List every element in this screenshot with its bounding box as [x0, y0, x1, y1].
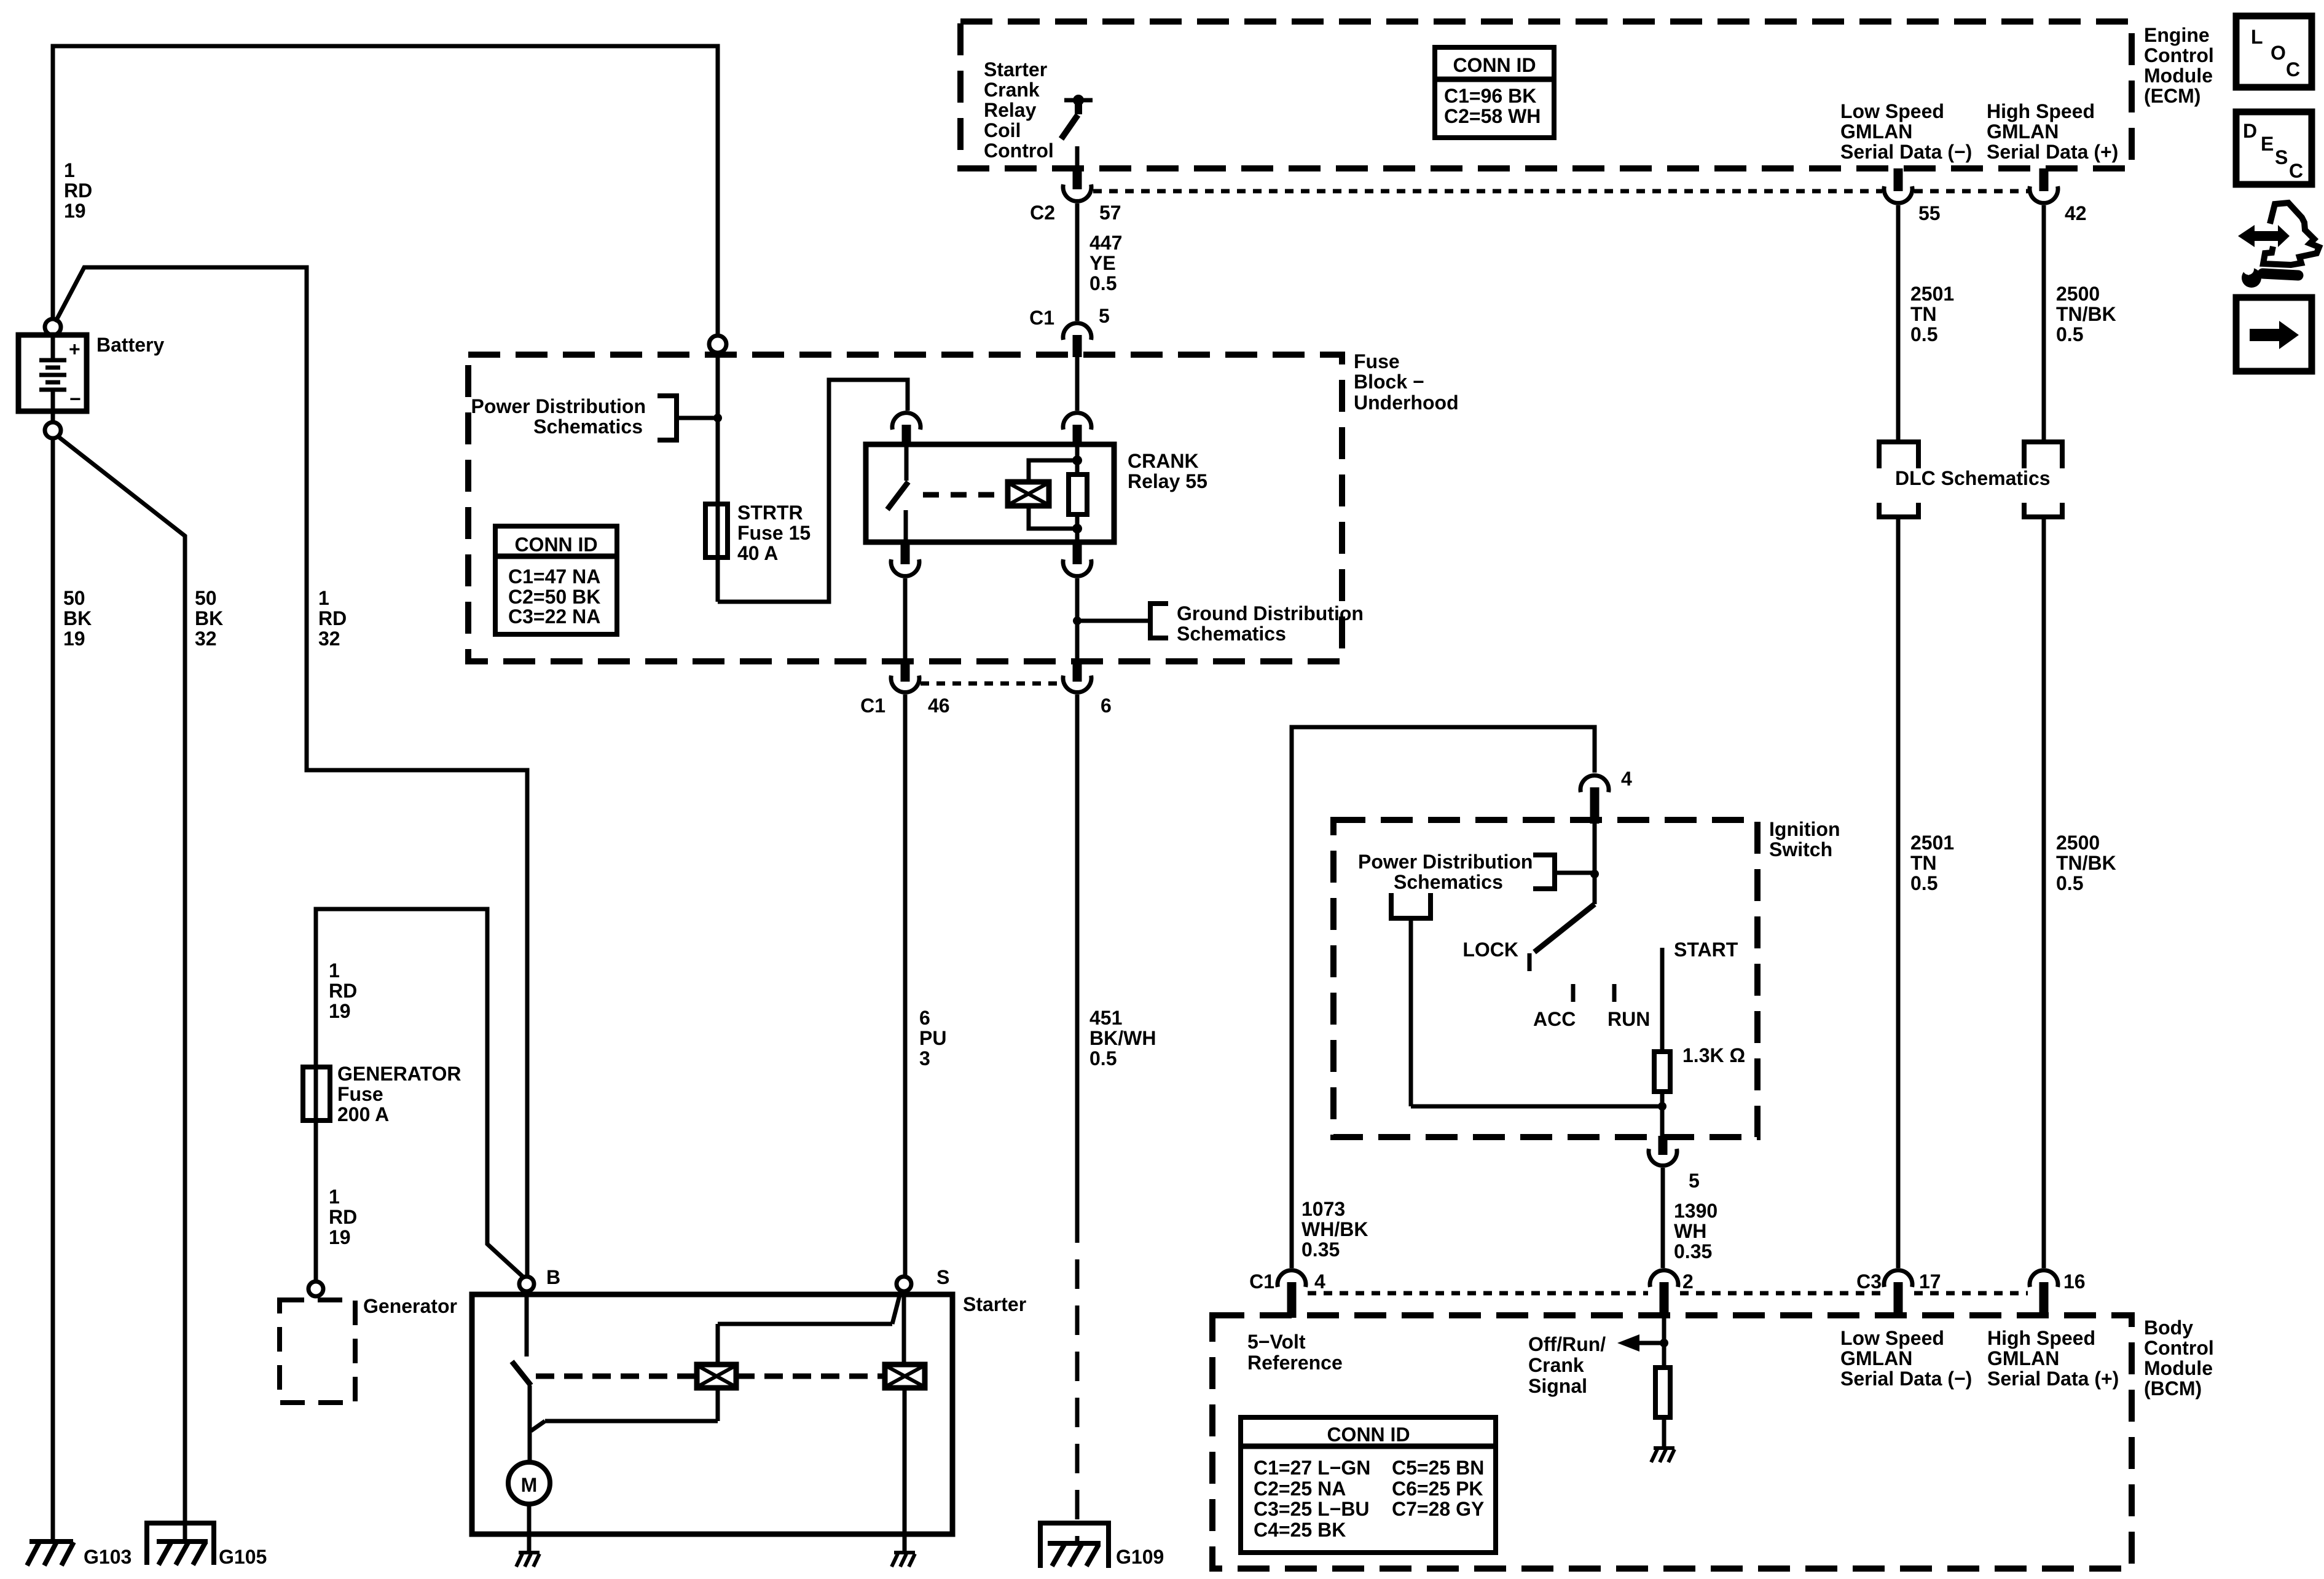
starter box: [472, 1294, 952, 1534]
svg-text:BK: BK: [63, 607, 92, 629]
svg-text:42: 42: [2065, 202, 2087, 224]
svg-text:BK/WH: BK/WH: [1089, 1027, 1156, 1049]
svg-text:Block −: Block −: [1354, 371, 1424, 393]
svg-text:46: 46: [928, 695, 950, 717]
wire BCM crank signal: [1662, 1318, 1666, 1368]
svg-text:YE: YE: [1089, 252, 1116, 274]
svg-text:B: B: [546, 1266, 560, 1288]
wire 2501 TN upper: [1896, 205, 1901, 442]
wire resistor to junction: [1660, 1092, 1665, 1136]
icon DESC box: [2236, 112, 2312, 184]
relay CRANK 55 box: [866, 444, 1114, 542]
svg-text:GMLAN: GMLAN: [1840, 1347, 1912, 1369]
wire S terminal to pull-in coil and ground: [904, 1291, 905, 1553]
relay resistor: [1069, 474, 1087, 514]
svg-text:Fuse: Fuse: [1354, 350, 1400, 372]
svg-text:Ignition: Ignition: [1769, 818, 1840, 840]
svg-text:Underhood: Underhood: [1354, 392, 1459, 414]
svg-text:Crank: Crank: [1528, 1354, 1584, 1376]
starter solenoid ground: [892, 1553, 915, 1567]
generator terminal circle: [308, 1282, 323, 1296]
svg-text:Low Speed: Low Speed: [1840, 1327, 1944, 1349]
dotted connector line below ECM: [1093, 189, 2028, 194]
starter crank relay coil control switch: [1064, 98, 1093, 103]
svg-text:5: 5: [1099, 305, 1110, 327]
svg-text:2: 2: [1682, 1270, 1694, 1293]
wire ignition feed inside: [1593, 824, 1597, 904]
svg-text:START: START: [1674, 939, 1738, 961]
starter B terminal: [519, 1277, 534, 1291]
connector 5 at ignition bottom: [1659, 1136, 1668, 1155]
starter contact branch: [531, 1421, 718, 1431]
starter S terminal: [897, 1277, 911, 1291]
connector cup relay switch bottom pin: [901, 542, 910, 564]
svg-text:TN: TN: [1910, 303, 1937, 325]
svg-text:RD: RD: [329, 980, 357, 1002]
starter motor ground: [516, 1553, 540, 1567]
svg-text:C2=58 WH: C2=58 WH: [1444, 105, 1541, 127]
wire 2501 TN lower: [1896, 517, 1901, 1268]
icon vehicle outline: [2263, 203, 2319, 265]
svg-text:5−Volt: 5−Volt: [1247, 1331, 1306, 1353]
svg-text:50: 50: [63, 587, 85, 609]
START contact wire: [1660, 948, 1665, 1052]
relay coil X-box: [1008, 482, 1049, 506]
svg-text:0.35: 0.35: [1674, 1240, 1712, 1262]
svg-text:C3=25 L−BU: C3=25 L−BU: [1254, 1498, 1370, 1520]
svg-text:1: 1: [329, 1186, 340, 1208]
svg-text:Serial Data (+): Serial Data (+): [1987, 141, 2118, 163]
wire 451 BK/WH solid part: [1075, 695, 1080, 1243]
svg-text:40 A: 40 A: [737, 542, 778, 564]
svg-text:1390: 1390: [1674, 1200, 1717, 1222]
svg-text:GMLAN: GMLAN: [1987, 1347, 2059, 1369]
svg-text:M: M: [521, 1474, 538, 1496]
ignition switch feed wire loop: [1292, 727, 1595, 1268]
svg-text:Crank: Crank: [984, 79, 1040, 101]
relay coil branch wires: [1029, 460, 1077, 529]
BCM internal resistor: [1655, 1368, 1670, 1417]
starter hold-in coil X-box: [697, 1364, 736, 1388]
svg-text:Schematics: Schematics: [533, 415, 643, 438]
svg-text:32: 32: [318, 628, 340, 650]
svg-text:WH/BK: WH/BK: [1301, 1218, 1368, 1240]
battery B1: [18, 335, 87, 411]
wire battery positive to fuse block (1 RD 19): [53, 46, 718, 336]
svg-text:19: 19: [63, 628, 85, 650]
wires hold-in coil: [718, 1291, 901, 1421]
svg-text:4: 4: [1621, 768, 1632, 790]
battery positive terminal: [45, 319, 61, 335]
svg-text:D: D: [2243, 120, 2257, 142]
svg-text:C: C: [2289, 160, 2303, 182]
svg-text:RD: RD: [329, 1206, 357, 1228]
svg-text:Serial Data (−): Serial Data (−): [1840, 1368, 1972, 1390]
svg-text:Control: Control: [2144, 1337, 2214, 1359]
svg-text:CONN ID: CONN ID: [1453, 54, 1536, 76]
svg-text:Signal: Signal: [1528, 1375, 1587, 1397]
svg-text:PU: PU: [919, 1027, 946, 1049]
svg-text:TN/BK: TN/BK: [2056, 852, 2116, 874]
svg-text:C3: C3: [1856, 1270, 1882, 1293]
svg-text:L: L: [2251, 26, 2263, 48]
junction dot ground distribution: [1073, 616, 1082, 625]
svg-text:C2: C2: [1030, 202, 1055, 224]
wire 1 RD 32 battery to starter B: [55, 267, 527, 1277]
BCM internal ground: [1651, 1448, 1674, 1462]
fuse STRTR 15 40A: [705, 504, 728, 557]
svg-text:55: 55: [1918, 202, 1941, 224]
junction dot ignition output: [1658, 1102, 1666, 1111]
svg-text:CONN ID: CONN ID: [514, 534, 597, 556]
svg-text:GMLAN: GMLAN: [1987, 120, 2059, 143]
svg-text:19: 19: [64, 200, 86, 222]
junction circle at fuse block boundary: [709, 336, 726, 353]
svg-text:C1=96 BK: C1=96 BK: [1444, 85, 1536, 107]
off/run/crank signal arrow: [1617, 1334, 1639, 1352]
svg-text:G105: G105: [219, 1546, 267, 1568]
svg-text:200 A: 200 A: [337, 1103, 389, 1125]
svg-text:C5=25 BN: C5=25 BN: [1392, 1457, 1484, 1479]
generator dashed box: [280, 1300, 355, 1403]
svg-text:0.5: 0.5: [1089, 1047, 1117, 1069]
svg-text:Control: Control: [2144, 44, 2214, 66]
svg-text:Power Distribution: Power Distribution: [1358, 851, 1533, 873]
svg-text:17: 17: [1919, 1270, 1941, 1293]
svg-text:4: 4: [1314, 1270, 1325, 1293]
wire into fuse block: [716, 353, 720, 602]
ground G103: [27, 1542, 74, 1565]
svg-text:CONN ID: CONN ID: [1327, 1423, 1410, 1446]
svg-text:C1: C1: [1029, 307, 1054, 329]
svg-text:C2=50 BK: C2=50 BK: [508, 586, 600, 608]
relay mech link dashed: [923, 492, 1005, 498]
svg-text:Fuse: Fuse: [337, 1083, 383, 1105]
starter solenoid switch: [525, 1291, 529, 1357]
icon wrench: [2263, 274, 2298, 275]
svg-text:0.5: 0.5: [2056, 323, 2083, 345]
svg-text:WH: WH: [1674, 1220, 1706, 1242]
svg-text:6: 6: [919, 1007, 930, 1029]
icon LOC box: [2236, 16, 2312, 87]
svg-text:CRANK: CRANK: [1128, 450, 1199, 472]
svg-text:2500: 2500: [2056, 832, 2100, 854]
ground G105: [147, 1523, 214, 1565]
relay switch: [905, 447, 909, 481]
svg-text:Low Speed: Low Speed: [1840, 100, 1944, 122]
svg-text:Serial Data (+): Serial Data (+): [1987, 1368, 2119, 1390]
svg-text:GMLAN: GMLAN: [1840, 120, 1912, 143]
svg-text:Serial Data (−): Serial Data (−): [1840, 141, 1972, 163]
wire 2500 TN/BK upper: [2042, 205, 2046, 442]
svg-text:3: 3: [919, 1047, 930, 1069]
starter motor M: [508, 1462, 550, 1504]
svg-text:RD: RD: [64, 179, 92, 202]
svg-text:Engine: Engine: [2144, 24, 2210, 46]
svg-text:C7=28 GY: C7=28 GY: [1392, 1498, 1484, 1520]
svg-text:5: 5: [1689, 1170, 1700, 1192]
fuse block underhood dashed box: [468, 355, 1342, 661]
svg-text:Coil: Coil: [984, 119, 1021, 141]
svg-text:C4=25 BK: C4=25 BK: [1254, 1519, 1346, 1541]
wire generator to 1 RD 32 junction loop: [316, 909, 524, 1282]
svg-text:19: 19: [329, 1000, 351, 1022]
fuse block CONN ID table: [495, 526, 617, 634]
connector cup relay coil bottom pin: [1073, 542, 1082, 564]
wire 50 BK 19 battery to G103: [51, 438, 55, 1540]
wire 50 BK 32 battery to G105: [57, 436, 185, 1542]
connector 16 at BCM: [2030, 1270, 2058, 1287]
svg-text:Relay: Relay: [984, 99, 1037, 121]
svg-text:(BCM): (BCM): [2144, 1377, 2202, 1400]
svg-text:2501: 2501: [1910, 832, 1954, 854]
wire 1390 WH 0.35: [1661, 1168, 1665, 1268]
starter pull-in coil X-box: [885, 1364, 925, 1388]
connector dome relay switch pin: [892, 413, 921, 430]
svg-text:1073: 1073: [1301, 1198, 1345, 1220]
connector pin 55 at ECM: [1894, 168, 1903, 191]
resistor 1.3K: [1654, 1052, 1670, 1092]
svg-text:E: E: [2261, 133, 2274, 155]
dotted connector line at BCM: [1308, 1291, 2028, 1296]
svg-text:Starter: Starter: [963, 1293, 1026, 1315]
svg-text:0.5: 0.5: [1910, 872, 1937, 894]
svg-text:RUN: RUN: [1608, 1008, 1650, 1030]
svg-text:RD: RD: [318, 607, 347, 629]
ACC position tick: [1571, 984, 1576, 1002]
svg-text:16: 16: [2063, 1270, 2086, 1293]
icon double arrow: [2238, 225, 2290, 247]
svg-text:Power Distribution: Power Distribution: [471, 395, 646, 417]
wire 451 BK/WH dashed part to G109: [1075, 1259, 1080, 1543]
connector dome relay coil pin: [1063, 413, 1091, 430]
ignition switch dashed box: [1333, 820, 1757, 1137]
svg-text:Control: Control: [984, 140, 1054, 162]
wire horizontal ignition output: [1411, 1105, 1662, 1109]
svg-text:S: S: [2275, 146, 2288, 168]
svg-text:19: 19: [329, 1226, 351, 1248]
dotted connector line fuse block bottom: [921, 682, 1062, 686]
svg-text:0.5: 0.5: [1910, 323, 1937, 345]
svg-text:1.3K Ω: 1.3K Ω: [1682, 1044, 1745, 1066]
connector 4 at ignition switch: [1580, 776, 1609, 792]
ECM CONN ID table: [1435, 47, 1554, 138]
svg-text:High Speed: High Speed: [1987, 1327, 2095, 1349]
wire 2500 TN/BK lower: [2042, 517, 2046, 1268]
svg-text:50: 50: [195, 587, 217, 609]
svg-text:TN/BK: TN/BK: [2056, 303, 2116, 325]
svg-text:Generator: Generator: [363, 1295, 457, 1317]
battery negative terminal: [45, 422, 61, 438]
junction dots relay coil: [1072, 455, 1082, 465]
svg-text:Module: Module: [2144, 1357, 2213, 1379]
svg-text:−: −: [69, 388, 81, 410]
svg-text:High Speed: High Speed: [1987, 100, 2095, 122]
connector C2 57 at ECM: [1073, 168, 1082, 189]
BCM dashed box: [1212, 1315, 2132, 1569]
svg-text:447: 447: [1089, 232, 1122, 254]
icon arrow box: [2236, 297, 2312, 371]
svg-text:TN: TN: [1910, 852, 1937, 874]
svg-text:C6=25 PK: C6=25 PK: [1392, 1478, 1483, 1500]
fuse GENERATOR 200A: [303, 1067, 330, 1120]
svg-text:0.5: 0.5: [2056, 872, 2083, 894]
svg-text:1: 1: [64, 159, 75, 181]
svg-text:C1: C1: [1249, 1270, 1274, 1293]
connector C1 4 at BCM: [1278, 1270, 1306, 1287]
ground distribution bracket: [1077, 619, 1149, 623]
svg-text:DLC Schematics: DLC Schematics: [1895, 467, 2051, 489]
connector pin 42 at ECM: [2039, 168, 2049, 191]
ECM dashed box: [960, 22, 2132, 168]
svg-text:C1=27 L−GN: C1=27 L−GN: [1254, 1457, 1370, 1479]
junction dot ignition power distribution: [1590, 870, 1599, 878]
DLC schematics bracket right: [2024, 442, 2062, 517]
svg-text:Schematics: Schematics: [1394, 871, 1503, 893]
connector C3 17 at BCM: [1884, 1270, 1912, 1287]
svg-text:0.35: 0.35: [1301, 1238, 1340, 1261]
svg-text:Ground Distribution: Ground Distribution: [1177, 602, 1364, 624]
svg-text:STRTR: STRTR: [737, 502, 803, 524]
connector C1 46 at fuse block bottom: [901, 663, 910, 682]
svg-text:+: +: [69, 338, 80, 360]
svg-text:Module: Module: [2144, 65, 2213, 87]
svg-text:C1=47 NA: C1=47 NA: [508, 565, 600, 588]
svg-text:6: 6: [1101, 695, 1112, 717]
svg-text:1: 1: [318, 587, 329, 609]
relay main wire through resistor: [1075, 447, 1080, 542]
wire 447 YE 0.5: [1075, 203, 1080, 321]
svg-text:ACC: ACC: [1533, 1008, 1576, 1030]
svg-text:2501: 2501: [1910, 283, 1954, 305]
DLC schematics bracket left: [1879, 442, 1918, 517]
wire from power distribution down: [1409, 918, 1413, 1106]
svg-text:S: S: [936, 1266, 949, 1288]
svg-text:C2=25 NA: C2=25 NA: [1254, 1478, 1346, 1500]
svg-text:Relay 55: Relay 55: [1128, 470, 1207, 492]
svg-text:Body: Body: [2144, 1317, 2193, 1339]
connector 2 at BCM: [1650, 1270, 1678, 1287]
svg-text:O: O: [2271, 42, 2286, 64]
svg-text:Starter: Starter: [984, 58, 1047, 81]
svg-text:LOCK: LOCK: [1462, 939, 1518, 961]
ignition switch blade LOCK: [1534, 904, 1595, 952]
power distribution schematics bracket: [658, 396, 677, 440]
svg-text:Fuse 15: Fuse 15: [737, 522, 811, 544]
wire to BCM internal ground: [1662, 1417, 1666, 1448]
svg-text:Battery: Battery: [96, 334, 164, 356]
svg-text:32: 32: [195, 628, 217, 650]
wire motor to ground: [527, 1504, 532, 1553]
svg-text:451: 451: [1089, 1007, 1122, 1029]
svg-text:(ECM): (ECM): [2144, 85, 2200, 107]
svg-text:BK: BK: [195, 607, 223, 629]
svg-text:57: 57: [1099, 202, 1121, 224]
starter mech link dashed: [536, 1374, 885, 1379]
svg-text:Reference: Reference: [1247, 1352, 1343, 1374]
RUN position tick: [1612, 984, 1617, 1002]
BCM CONN ID table: [1241, 1417, 1496, 1553]
svg-text:1: 1: [329, 959, 340, 982]
svg-text:0.5: 0.5: [1089, 272, 1117, 294]
svg-text:Switch: Switch: [1769, 838, 1832, 860]
connector C1 5 at fuse block top: [1063, 323, 1091, 340]
connector 6 at fuse block bottom: [1073, 663, 1082, 682]
power distribution bracket right (ignition): [1533, 855, 1555, 889]
svg-text:G109: G109: [1116, 1546, 1164, 1568]
svg-text:G103: G103: [84, 1546, 132, 1568]
power distribution bracket bottom (ignition): [1391, 893, 1431, 918]
svg-text:C1: C1: [860, 695, 885, 717]
ground G109: [1040, 1523, 1109, 1568]
svg-text:Off/Run/: Off/Run/: [1528, 1333, 1606, 1355]
svg-text:Schematics: Schematics: [1177, 623, 1286, 645]
svg-text:C3=22 NA: C3=22 NA: [508, 605, 600, 628]
svg-text:GENERATOR: GENERATOR: [337, 1063, 461, 1085]
svg-text:C: C: [2286, 58, 2300, 81]
wire 6 PU 3 to starter S: [903, 695, 908, 1277]
svg-text:2500: 2500: [2056, 283, 2100, 305]
wire fuse to relay switch pin: [718, 380, 908, 602]
junction dot power distribution: [713, 414, 722, 422]
